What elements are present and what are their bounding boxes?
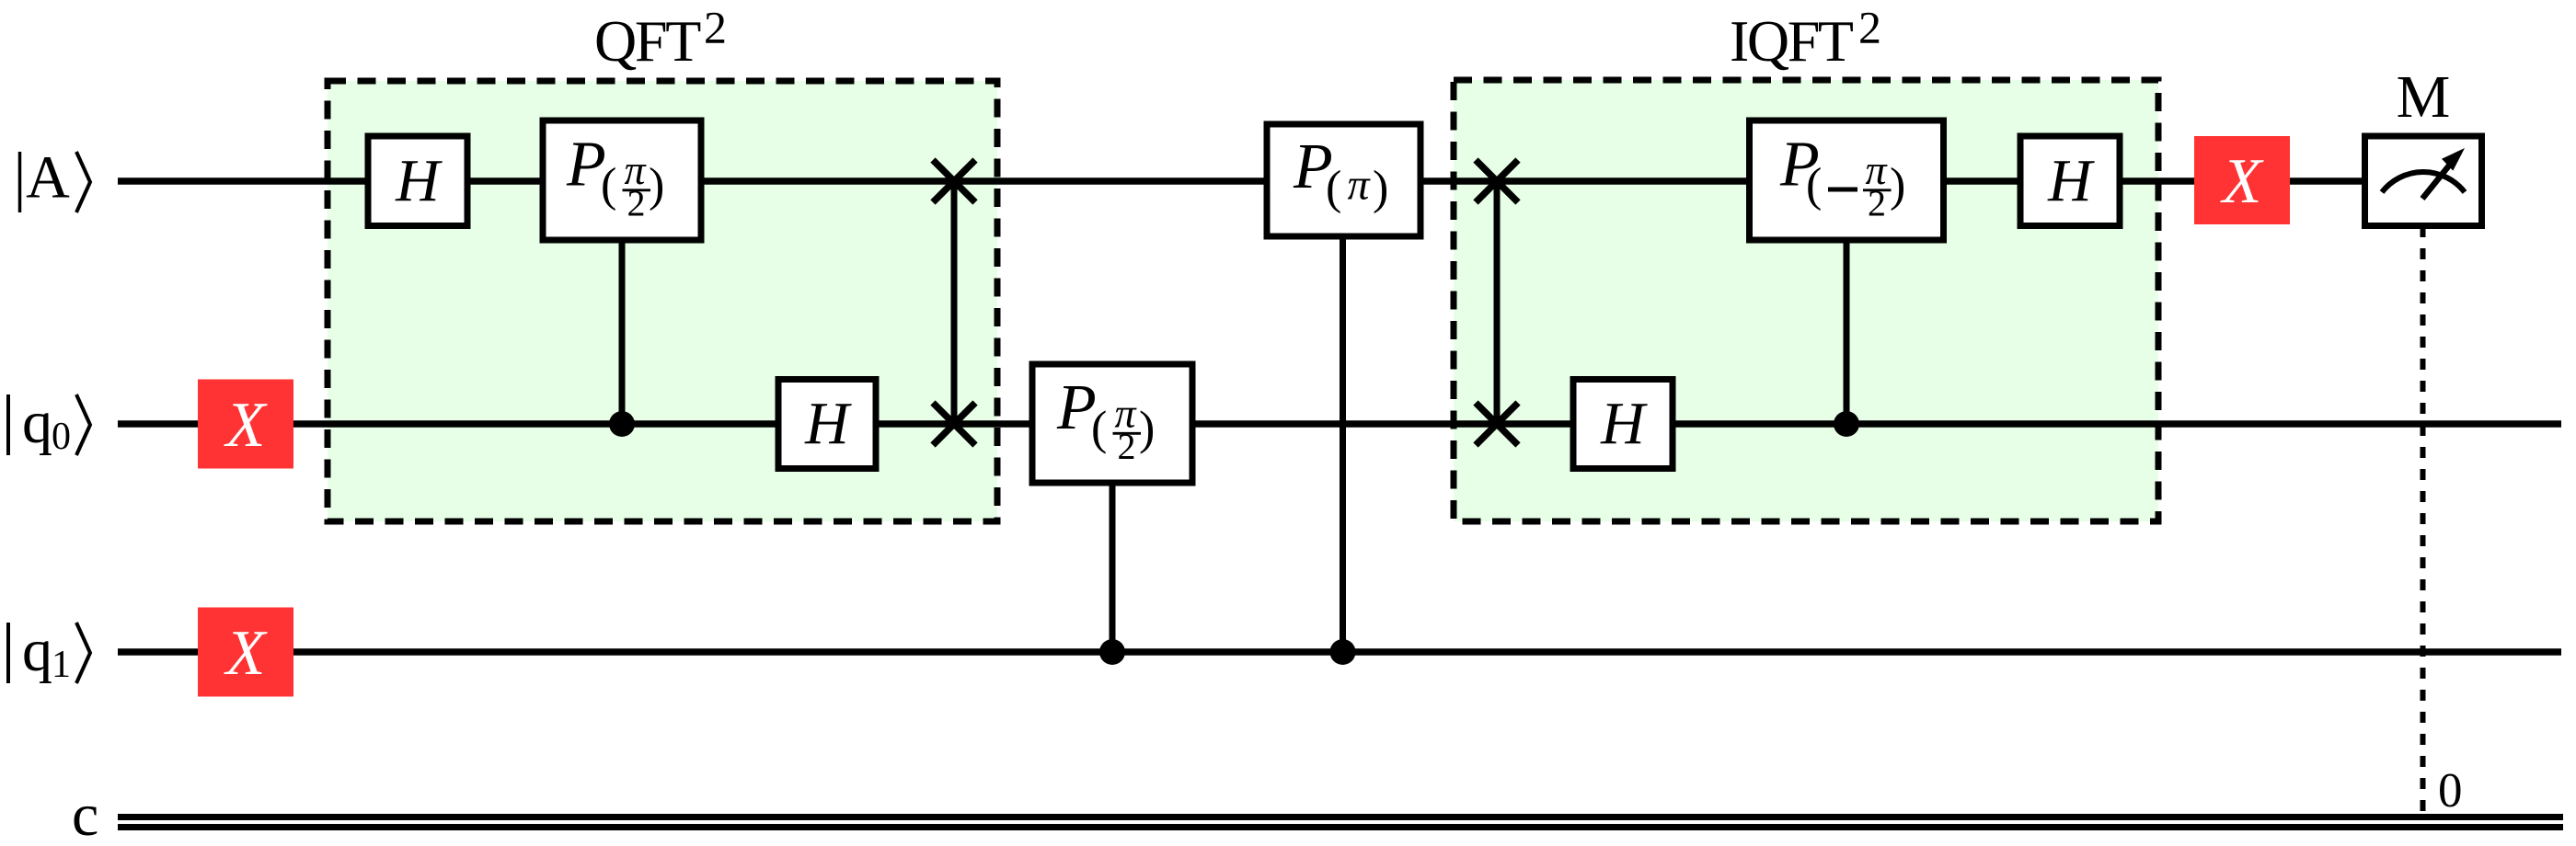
- svg-text:2: 2: [1118, 426, 1136, 467]
- gate X on A: [2194, 136, 2290, 224]
- svg-text:(: (: [601, 159, 616, 211]
- svg-text:QFT: QFT: [594, 8, 701, 74]
- svg-text:c: c: [72, 782, 98, 846]
- controlled-P(pi) control line A->q1: [1340, 236, 1346, 652]
- svg-text:X: X: [2220, 146, 2265, 217]
- svg-text:0: 0: [2438, 764, 2463, 817]
- measurement dashed line to c: [2421, 226, 2426, 814]
- label QFT^2: [594, 2, 727, 74]
- svg-text:2: 2: [704, 2, 727, 53]
- swap gate A<->q0 (QFT): [933, 160, 975, 445]
- svg-text:H: H: [2047, 147, 2095, 214]
- svg-text:H: H: [804, 390, 852, 457]
- gate H on A (IQFT): [2020, 136, 2120, 226]
- svg-text:2: 2: [1868, 183, 1886, 224]
- svg-text:X: X: [224, 390, 269, 461]
- svg-text:2: 2: [627, 183, 646, 224]
- controlled-P(pi/2) control line q0->q1: [1110, 483, 1116, 652]
- IQFT2 dashed border: [1454, 80, 2158, 521]
- control dot on q1: [1330, 639, 1356, 665]
- wire |q0>: [118, 420, 2561, 428]
- svg-text:1: 1: [52, 644, 71, 686]
- svg-text:): ): [1890, 159, 1905, 211]
- svg-text:2: 2: [1858, 2, 1881, 53]
- svg-text:M: M: [2397, 63, 2451, 131]
- svg-text:X: X: [224, 618, 269, 689]
- label |q1>: [8, 617, 90, 686]
- svg-text:(: (: [1091, 403, 1107, 455]
- control dot on q1: [1099, 639, 1125, 665]
- gate P(pi/2) on A: [543, 120, 701, 240]
- control dot on q0: [609, 411, 635, 437]
- gate P(-pi/2) on A: [1750, 120, 1944, 240]
- svg-text:H: H: [395, 147, 443, 214]
- svg-text:H: H: [1600, 390, 1648, 457]
- gate H on A (QFT): [368, 136, 467, 226]
- classical wire c (double line): [118, 817, 2563, 828]
- QFT2 box background: [328, 81, 997, 521]
- gate X on q0: [198, 380, 293, 469]
- svg-text:(: (: [1806, 159, 1822, 211]
- control dot on q0: [1834, 411, 1859, 437]
- gate H on q0 (QFT): [778, 380, 876, 469]
- label |q0>: [8, 389, 90, 458]
- svg-text:π: π: [1347, 161, 1371, 210]
- svg-text:A: A: [26, 144, 70, 211]
- svg-text:q: q: [22, 617, 52, 684]
- wire |q1>: [118, 648, 2561, 656]
- label IQFT^2: [1730, 2, 1881, 74]
- gate X on q1: [198, 608, 293, 697]
- swap gate A<->q0 (IQFT): [1476, 160, 1518, 445]
- svg-text:IQFT: IQFT: [1730, 8, 1854, 74]
- svg-text:(: (: [1326, 162, 1341, 214]
- svg-text:q: q: [22, 389, 52, 456]
- controlled-P(pi/2) control line A->q0: [619, 240, 626, 424]
- svg-text:): ): [1373, 162, 1388, 214]
- IQFT2 box background: [1454, 80, 2158, 521]
- controlled-P(-pi/2) control line A->q0: [1844, 240, 1850, 424]
- QFT2 dashed border: [328, 81, 997, 521]
- svg-text:): ): [1139, 403, 1155, 455]
- svg-text:): ): [649, 159, 664, 211]
- svg-text:0: 0: [52, 416, 71, 458]
- gate P(pi/2) on q0: [1032, 364, 1192, 483]
- measurement gate M box: [2365, 136, 2482, 226]
- label |A>: [20, 144, 91, 213]
- wire |A>: [118, 177, 2366, 185]
- gate P(pi) on A: [1267, 124, 1420, 236]
- gate H on q0 (IQFT): [1573, 380, 1673, 469]
